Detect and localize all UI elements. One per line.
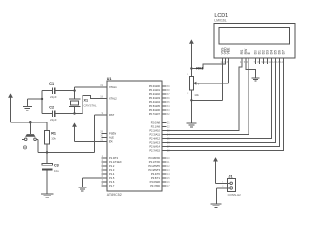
svg-text:22: 22 bbox=[167, 126, 170, 129]
svg-text:12: 12 bbox=[167, 165, 170, 168]
wire RST net to pin 9 bbox=[94, 115, 107, 153]
svg-text:14: 14 bbox=[280, 61, 283, 64]
LCD1 reference label bbox=[214, 13, 228, 19]
svg-text:R1: R1 bbox=[51, 132, 56, 136]
svg-text:32: 32 bbox=[167, 113, 170, 116]
svg-text:34: 34 bbox=[167, 105, 170, 108]
svg-text:14: 14 bbox=[167, 173, 170, 176]
wire LCD RS to P2.2 bbox=[162, 58, 242, 130]
svg-text:13: 13 bbox=[276, 61, 279, 64]
U1 value label AT89C52 bbox=[107, 193, 122, 197]
junction dot button tap bbox=[29, 121, 31, 123]
svg-text:P3.0/RXD: P3.0/RXD bbox=[148, 156, 160, 160]
svg-text:P2.1/A9: P2.1/A9 bbox=[151, 125, 161, 129]
svg-text:P2.2/A10: P2.2/A10 bbox=[149, 129, 160, 133]
svg-text:2: 2 bbox=[102, 159, 104, 162]
svg-text:10k: 10k bbox=[51, 136, 56, 140]
svg-text:P2.3/A11: P2.3/A11 bbox=[150, 133, 161, 137]
svg-text:P0.3/AD3: P0.3/AD3 bbox=[149, 96, 161, 100]
power VCC arrow (J1) bbox=[213, 157, 218, 183]
resistor R1 bbox=[45, 122, 57, 152]
svg-text:P3.2/INT0: P3.2/INT0 bbox=[148, 164, 160, 168]
wire ground tap horizontal bbox=[27, 99, 42, 106]
wire XTAL1 net (pin19 to crystal top node) bbox=[75, 86, 107, 88]
LCD display window bbox=[219, 28, 290, 45]
svg-text:P0.5/AD5: P0.5/AD5 bbox=[149, 104, 161, 108]
wire crystal bottom lead bbox=[74, 107, 76, 114]
svg-text:18: 18 bbox=[100, 95, 103, 98]
svg-text:2: 2 bbox=[187, 93, 189, 95]
svg-text:P1.6: P1.6 bbox=[109, 180, 115, 184]
LCD pins VSS,VDD,VEE,RS,RW,E,D0-D7 with numbers bbox=[220, 47, 285, 64]
svg-text:C2: C2 bbox=[49, 105, 54, 109]
ground symbol (C3) bbox=[41, 194, 54, 198]
svg-text:4: 4 bbox=[102, 167, 104, 170]
capacitor C2 bbox=[42, 105, 83, 122]
svg-text:11: 11 bbox=[268, 61, 271, 64]
svg-text:8: 8 bbox=[102, 183, 104, 186]
U1 reference label bbox=[107, 77, 112, 81]
svg-text:9: 9 bbox=[102, 112, 104, 115]
svg-text:37: 37 bbox=[167, 93, 170, 96]
svg-text:36: 36 bbox=[167, 97, 170, 100]
svg-text:17: 17 bbox=[167, 185, 170, 188]
svg-text:P1.1/T2EX: P1.1/T2EX bbox=[109, 160, 122, 164]
svg-text:U1: U1 bbox=[107, 77, 112, 81]
wire LCD RW to ground bbox=[246, 58, 256, 78]
svg-text:35: 35 bbox=[167, 101, 170, 104]
svg-text:EA: EA bbox=[109, 140, 113, 144]
svg-text:P3.3/INT1: P3.3/INT1 bbox=[148, 168, 160, 172]
microcontroller U1 body bbox=[107, 81, 162, 191]
wire C1/C2 ground bus vertical bbox=[41, 91, 43, 114]
junction dot C3 tap bbox=[46, 151, 48, 153]
svg-text:LM016L: LM016L bbox=[214, 19, 226, 23]
ground symbol (RW) bbox=[252, 78, 260, 81]
push button (reset) bbox=[22, 122, 38, 140]
ground symbol (RV1) bbox=[186, 123, 196, 127]
svg-text:P0.0/AD0: P0.0/AD0 bbox=[149, 84, 161, 88]
junction dot crystal bottom / C2 node bbox=[73, 112, 75, 114]
wire LCD VDD to VCC bbox=[191, 58, 225, 68]
potentiometer RV1 bbox=[187, 67, 203, 98]
svg-text:J1: J1 bbox=[228, 175, 232, 179]
svg-text:XTAL1: XTAL1 bbox=[109, 85, 117, 89]
junction dot VSS tap bbox=[190, 99, 192, 101]
svg-text:P0.6/AD6: P0.6/AD6 bbox=[149, 108, 161, 112]
svg-text:CONN-H2: CONN-H2 bbox=[228, 193, 242, 197]
junction dot ground tap bbox=[41, 98, 43, 100]
svg-text:22pF: 22pF bbox=[50, 95, 57, 99]
junction dot VDD tap bbox=[190, 67, 192, 69]
svg-text:10u: 10u bbox=[54, 169, 59, 173]
svg-text:10k: 10k bbox=[194, 93, 199, 97]
crystal X1 bbox=[69, 99, 97, 108]
svg-text:CRYSTAL: CRYSTAL bbox=[84, 104, 97, 108]
svg-text:10: 10 bbox=[264, 61, 267, 64]
svg-text:P1.7: P1.7 bbox=[109, 184, 115, 188]
svg-text:P2.6/A14: P2.6/A14 bbox=[149, 145, 160, 149]
svg-text:22pF: 22pF bbox=[50, 118, 57, 122]
wire LCD E to P2.3 bbox=[162, 58, 249, 134]
svg-text:RST: RST bbox=[109, 113, 115, 117]
svg-text:X1: X1 bbox=[84, 99, 89, 103]
svg-text:P0.1/AD1: P0.1/AD1 bbox=[149, 88, 161, 92]
svg-text:1: 1 bbox=[102, 155, 104, 158]
LCD LM016L outer body bbox=[214, 24, 295, 59]
svg-text:24: 24 bbox=[167, 134, 170, 137]
svg-text:P3.6/WR: P3.6/WR bbox=[150, 180, 161, 184]
svg-text:C3: C3 bbox=[54, 164, 59, 168]
wire VCC to J1 pin 1 bbox=[216, 182, 225, 184]
svg-text:P2.0/A8: P2.0/A8 bbox=[151, 121, 161, 125]
wire VCC to R1 top bbox=[11, 121, 48, 123]
svg-text:12: 12 bbox=[272, 61, 275, 64]
U1 right pins (P0.0-P0.7, P2.0-P2.7, P3.0-P3.7) with numbers bbox=[148, 84, 170, 188]
ground symbol (P1.5) bbox=[78, 187, 86, 191]
wire XTAL2 net with jog bbox=[83, 95, 107, 113]
svg-text:1: 1 bbox=[187, 74, 189, 76]
svg-text:ALE: ALE bbox=[109, 136, 114, 140]
wire LCD VSS to ground bus bbox=[191, 58, 222, 100]
svg-text:3: 3 bbox=[102, 163, 104, 166]
svg-text:P1.3: P1.3 bbox=[109, 168, 115, 172]
svg-text:27: 27 bbox=[167, 146, 170, 149]
U1 left pins (XTAL1,XTAL2,RST,PSEN,ALE,EA,P1.0-P1.7) with numbers bbox=[100, 84, 122, 188]
svg-text:P3.7/RD: P3.7/RD bbox=[150, 184, 160, 188]
svg-text:P3.1/TXD: P3.1/TXD bbox=[149, 160, 160, 164]
svg-text:26: 26 bbox=[167, 142, 170, 145]
LCD1 value label LM016L bbox=[214, 19, 226, 23]
svg-text:5: 5 bbox=[102, 171, 104, 174]
svg-text:XTAL2: XTAL2 bbox=[109, 97, 117, 101]
svg-text:31: 31 bbox=[100, 138, 103, 141]
svg-text:10: 10 bbox=[167, 157, 170, 160]
ground symbol (J1) bbox=[210, 204, 221, 208]
svg-text:7: 7 bbox=[102, 179, 104, 182]
svg-text:P2.4/A12: P2.4/A12 bbox=[149, 137, 160, 141]
svg-text:P1.0/T2: P1.0/T2 bbox=[109, 156, 119, 160]
svg-text:AT89C52: AT89C52 bbox=[107, 193, 122, 197]
capacitor C1 bbox=[42, 82, 75, 99]
svg-text:P1.4: P1.4 bbox=[109, 172, 115, 176]
svg-text:21: 21 bbox=[167, 122, 170, 125]
svg-text:P1.5: P1.5 bbox=[109, 176, 115, 180]
ground symbol (crystal caps) bbox=[23, 106, 32, 110]
wire RST net horizontal bbox=[38, 152, 95, 154]
svg-text:39: 39 bbox=[167, 85, 170, 88]
svg-text:P2.5/A13: P2.5/A13 bbox=[149, 141, 160, 145]
svg-text:P0.4/AD4: P0.4/AD4 bbox=[149, 100, 161, 104]
wire P1.5 to ground bbox=[82, 178, 107, 187]
svg-text:19: 19 bbox=[100, 84, 103, 87]
svg-text:P2.7/A15: P2.7/A15 bbox=[149, 149, 160, 153]
svg-text:30: 30 bbox=[100, 134, 103, 137]
wire LCD VEE to RV1 wiper bbox=[196, 58, 228, 83]
wire RV1 bottom to ground bbox=[190, 90, 192, 123]
svg-text:13: 13 bbox=[167, 169, 170, 172]
svg-text:23: 23 bbox=[167, 130, 170, 133]
wire crystal top node vertical bbox=[74, 87, 76, 99]
wire LCD D7 to P2.7 bbox=[162, 58, 284, 150]
capacitor C3 (electrolytic) bbox=[42, 153, 59, 194]
svg-text:P0.7/AD7: P0.7/AD7 bbox=[149, 112, 161, 116]
wire LCD D5 to P2.5 bbox=[162, 58, 276, 142]
junction dot C1/XTAL1 bbox=[73, 89, 75, 91]
power VCC arrow (reset) bbox=[8, 93, 13, 122]
svg-text:33: 33 bbox=[167, 109, 170, 112]
wire LCD D6 to P2.6 bbox=[162, 58, 280, 146]
svg-text:D7: D7 bbox=[282, 50, 286, 54]
svg-text:PSEN: PSEN bbox=[109, 132, 116, 136]
power VCC arrow (EA) bbox=[72, 122, 77, 141]
svg-text:15: 15 bbox=[167, 177, 170, 180]
svg-text:VEE: VEE bbox=[227, 47, 231, 55]
wire EA to VCC bbox=[75, 141, 108, 143]
svg-text:29: 29 bbox=[100, 130, 103, 133]
power VCC arrow (RV1/VDD) bbox=[189, 39, 194, 76]
svg-text:25: 25 bbox=[167, 138, 170, 141]
svg-text:RV1: RV1 bbox=[196, 67, 203, 71]
svg-text:C1: C1 bbox=[49, 82, 54, 86]
svg-text:P3.4/T0: P3.4/T0 bbox=[151, 172, 161, 176]
svg-text:P0.2/AD2: P0.2/AD2 bbox=[149, 92, 161, 96]
svg-text:P1.2: P1.2 bbox=[109, 164, 115, 168]
svg-text:28: 28 bbox=[167, 150, 170, 153]
svg-text:3: 3 bbox=[198, 84, 200, 86]
svg-text:16: 16 bbox=[167, 181, 170, 184]
svg-text:P3.5/T1: P3.5/T1 bbox=[151, 176, 161, 180]
wire J1 pin 2 to ground bbox=[216, 188, 224, 204]
button interactive marker bbox=[23, 146, 26, 149]
svg-text:6: 6 bbox=[102, 175, 104, 178]
connector J1 bbox=[222, 175, 241, 197]
wire button to RST net bbox=[37, 139, 39, 152]
wire LCD D4 to P2.4 bbox=[162, 58, 272, 138]
svg-text:38: 38 bbox=[167, 89, 170, 92]
svg-text:11: 11 bbox=[167, 161, 170, 164]
